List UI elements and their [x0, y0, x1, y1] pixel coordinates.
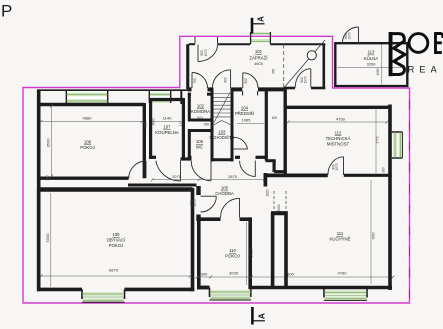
- letter B partial: [435, 32, 443, 54]
- window bay below room 110: [209, 288, 251, 301]
- door jamb marks to magenta: [195, 37, 218, 44]
- left outer wall: [37, 90, 41, 292]
- svg-text:600: 600: [272, 116, 278, 120]
- svg-text:KOMORA: KOMORA: [191, 109, 210, 114]
- svg-text:800: 800: [224, 77, 228, 83]
- svg-text:PŘEDSÍŇ: PŘEDSÍŇ: [235, 111, 254, 116]
- label chodba 105: [215, 186, 234, 196]
- svg-text:103: 103: [218, 129, 226, 134]
- svg-text:4880: 4880: [83, 116, 93, 121]
- boundary dark dashes overlay: [409, 100, 411, 303]
- door D8 predsin-chodba: [240, 161, 256, 177]
- outer wall top-left (room108/koupelna band): [37, 90, 188, 104]
- svg-text:4760: 4760: [336, 116, 346, 121]
- svg-text:600: 600: [287, 271, 294, 276]
- svg-text:950: 950: [204, 123, 210, 127]
- room 110 box: [197, 217, 324, 289]
- svg-text:1970: 1970: [204, 49, 208, 56]
- room 107 KOUPELNA box: [149, 98, 183, 159]
- section mark A bottom: [252, 307, 266, 325]
- svg-text:P: P: [1, 2, 12, 21]
- door D1 porch exterior: [198, 45, 218, 62]
- wall chodba-109 with door opening: [196, 186, 200, 221]
- room 112 TECHNICKA box: [264, 89, 392, 291]
- dim room108 horizontal 4880: [40, 116, 144, 123]
- svg-text:POKOJ: POKOJ: [225, 254, 240, 259]
- svg-text:2000: 2000: [277, 204, 281, 211]
- svg-text:3035: 3035: [229, 270, 239, 275]
- room 104 PREDSIN box: [235, 91, 266, 161]
- svg-text:KUCHYNĚ: KUCHYNĚ: [329, 237, 350, 242]
- magenta property boundary: [23, 36, 410, 303]
- dim room109 horizontal 6875: [40, 268, 192, 278]
- room 106 WC box: [188, 129, 212, 159]
- svg-text:4760: 4760: [338, 270, 348, 275]
- svg-text:1970: 1970: [335, 163, 339, 170]
- door D-109: [201, 196, 217, 212]
- label kitchen 111: [329, 231, 350, 242]
- svg-text:108: 108: [84, 140, 92, 145]
- chodba north wall: [181, 157, 213, 160]
- svg-text:760: 760: [193, 78, 197, 84]
- door D7 chodba-wc: [191, 161, 211, 181]
- door D112: [328, 157, 344, 175]
- svg-text:ZÁPRAŽÍ: ZÁPRAŽÍ: [249, 55, 268, 60]
- window right of 112: [392, 132, 403, 158]
- dim predsin 1965: [237, 118, 264, 124]
- svg-text:110: 110: [229, 248, 236, 253]
- svg-text:4660: 4660: [372, 232, 376, 239]
- porch (zapraz) walls: [188, 44, 326, 89]
- porch window W3: [251, 32, 271, 44]
- svg-text:OBÝVACÍ: OBÝVACÍ: [107, 238, 127, 243]
- svg-text:300: 300: [201, 271, 208, 276]
- svg-text:113: 113: [368, 50, 375, 55]
- svg-text:1970: 1970: [193, 199, 197, 206]
- svg-text:3770: 3770: [376, 136, 380, 143]
- svg-text:107: 107: [163, 125, 171, 130]
- door B porch-stairs: [212, 70, 230, 88]
- svg-text:1140: 1140: [163, 116, 172, 121]
- kolna dims: [337, 45, 406, 85]
- dims room 112: [287, 109, 389, 174]
- dim room108 vertical 3500: [46, 105, 54, 181]
- svg-text:109: 109: [112, 232, 120, 237]
- svg-text:1970: 1970: [348, 32, 352, 39]
- svg-text:1600: 1600: [265, 189, 269, 196]
- window W2 top of koupelna: [149, 91, 171, 103]
- svg-text:WC: WC: [196, 145, 203, 150]
- terrace area dashed edge + diagonal + circle: [283, 45, 285, 88]
- kitchen 111: [324, 286, 392, 290]
- svg-text:111: 111: [337, 231, 344, 236]
- label room 107: [155, 125, 179, 135]
- door C porch-predsin: [243, 73, 258, 88]
- label kolna 113: [364, 50, 378, 67]
- svg-text:1970: 1970: [304, 76, 308, 83]
- svg-text:800: 800: [197, 116, 203, 120]
- letter O: [409, 34, 428, 53]
- svg-text:2870: 2870: [228, 174, 238, 179]
- label porch 101: [249, 49, 268, 66]
- svg-text:450: 450: [272, 69, 276, 75]
- label room 104: [235, 105, 254, 116]
- door D9 predsin-stairs: [234, 137, 248, 149]
- svg-text:POKOJ: POKOJ: [109, 243, 124, 248]
- label room 110: [225, 248, 240, 259]
- section mark A top: [252, 16, 265, 34]
- staircase 103 box: [212, 88, 232, 162]
- svg-text:SCHODIŠTĚ: SCHODIŠTĚ: [209, 135, 234, 140]
- svg-text:960: 960: [382, 167, 386, 173]
- wall 110/kitchen shaft: [271, 213, 288, 289]
- svg-text:A: A: [257, 313, 267, 319]
- room 108 POKOJ box: [37, 103, 144, 178]
- svg-text:170: 170: [179, 121, 183, 127]
- label room 108: [80, 140, 95, 151]
- door D6 chodba-koupelna: [156, 161, 181, 182]
- svg-text:TECHNICKÁ: TECHNICKÁ: [326, 136, 351, 141]
- svg-text:101: 101: [255, 49, 263, 54]
- svg-text:A: A: [256, 16, 265, 22]
- predsin right step walls: [265, 161, 285, 187]
- svg-text:POKOJ: POKOJ: [80, 145, 95, 150]
- svg-text:REA: REA: [408, 64, 442, 74]
- label room 112: [326, 130, 351, 146]
- bottom dim line 300 3035 600 4760: [196, 270, 395, 278]
- chodba south wall: [128, 184, 197, 187]
- svg-text:3500: 3500: [46, 138, 51, 148]
- dim room109 vertical 5330: [45, 193, 51, 287]
- label room 106: [196, 139, 204, 150]
- svg-text:300: 300: [46, 175, 50, 181]
- room 109 box: [37, 188, 194, 291]
- logo BOB REA (cut off at right edge): [389, 32, 443, 76]
- window W1 top of room 108: [66, 91, 108, 103]
- svg-text:KOUPELNA: KOUPELNA: [155, 130, 179, 135]
- svg-text:2075: 2075: [172, 174, 182, 179]
- svg-text:5330: 5330: [45, 233, 50, 243]
- svg-text:MÍSTNOST: MÍSTNOST: [327, 141, 350, 146]
- svg-text:CHODBA: CHODBA: [215, 191, 234, 196]
- svg-text:KŮLNA: KŮLNA: [364, 56, 378, 61]
- room 113 KOLNA box: [334, 42, 408, 87]
- dim koupelna 1140: [153, 116, 181, 122]
- label room 109: [107, 232, 127, 248]
- svg-text:106: 106: [196, 139, 204, 144]
- door A porch-komora: [192, 73, 208, 89]
- stair treads: [211, 93, 233, 127]
- label room 103: [209, 129, 234, 140]
- svg-text:3290: 3290: [367, 62, 377, 67]
- dashed opening chodba-kitchen: [274, 191, 286, 211]
- door D3 terrace: [295, 69, 311, 88]
- window bay below kitchen: [324, 288, 367, 301]
- dim 110 vertical 3055: [247, 222, 254, 285]
- label room 102: [191, 103, 210, 114]
- window bay below room 109: [82, 289, 125, 302]
- kitchen dims: [371, 180, 376, 284]
- svg-text:800: 800: [244, 78, 248, 84]
- corridor dim line 2075 / 2870: [151, 174, 266, 181]
- door D10 chodba-110: [221, 198, 240, 217]
- svg-text:4600: 4600: [254, 61, 264, 66]
- svg-text:6875: 6875: [109, 268, 119, 273]
- svg-text:102: 102: [197, 103, 205, 108]
- room 102 KOMORA box: [188, 88, 214, 162]
- big B mark: [389, 32, 393, 76]
- svg-text:3055: 3055: [248, 248, 253, 258]
- svg-text:1965: 1965: [242, 118, 252, 123]
- svg-text:104: 104: [241, 105, 249, 110]
- door D4 kolna: [343, 27, 359, 43]
- svg-text:112: 112: [335, 130, 342, 135]
- svg-text:3050: 3050: [144, 121, 148, 128]
- door D5 room108: [129, 161, 146, 178]
- svg-text:1980: 1980: [376, 68, 380, 75]
- svg-text:3850: 3850: [152, 118, 156, 125]
